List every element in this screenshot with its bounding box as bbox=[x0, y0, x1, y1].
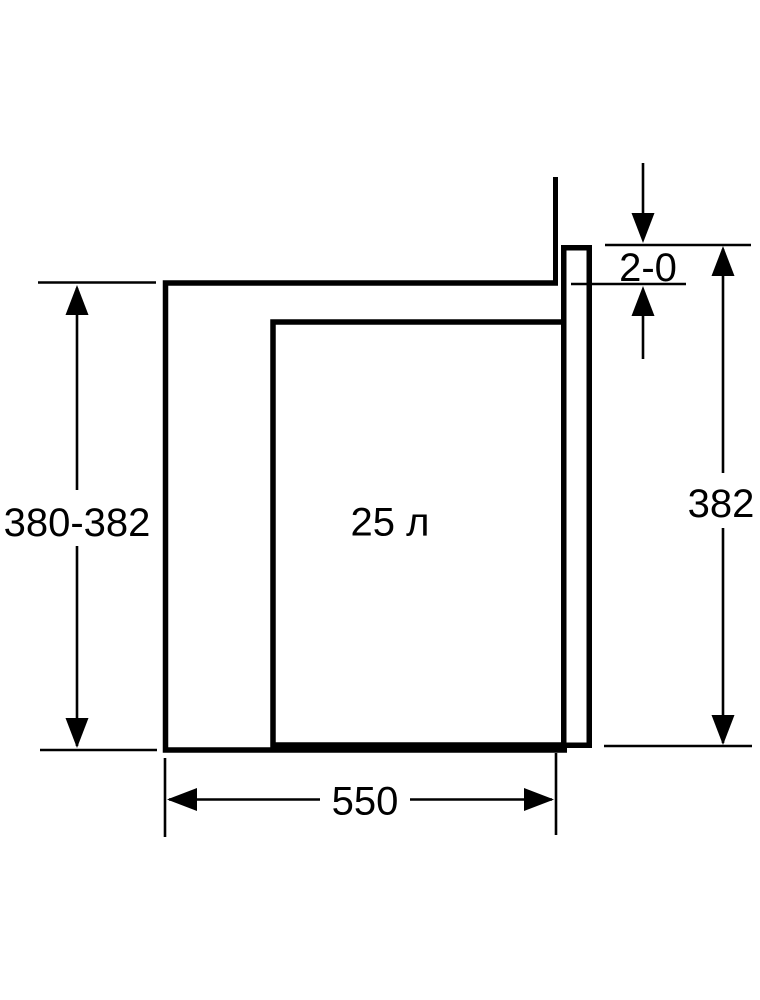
svg-text:2-0: 2-0 bbox=[619, 246, 677, 290]
extension line 550 left bbox=[164, 758, 167, 837]
extension line bottom-right (door bottom level) bbox=[604, 745, 752, 748]
svg-text:25 л: 25 л bbox=[351, 501, 430, 545]
arrowhead down (380-382 bottom) bbox=[66, 718, 89, 748]
dimension 2-0 lower arrow (pointing up) bbox=[642, 314, 645, 359]
wall line above niche bbox=[553, 177, 558, 285]
arrowhead up (382 top) bbox=[712, 246, 735, 276]
oven body 25 l bbox=[273, 322, 563, 745]
dimension 550 horizontal line bbox=[169, 798, 320, 801]
dimension 382 vertical line bbox=[722, 249, 725, 473]
arrowhead right (550) bbox=[524, 788, 554, 811]
extension line 2-0 bottom (niche top level) bbox=[571, 283, 686, 286]
extension line 550 right bbox=[555, 753, 558, 835]
svg-text:380-382: 380-382 bbox=[4, 501, 151, 545]
arrowhead left (550) bbox=[167, 788, 197, 811]
dimension 380-382 vertical line bbox=[76, 288, 79, 490]
niche outline (left, top, bottom walls) bbox=[166, 283, 568, 750]
extension line bottom-left bbox=[40, 749, 157, 752]
dimension 2-0 upper arrow (pointing down) bbox=[642, 163, 645, 216]
extension line top-right (door top level) bbox=[605, 244, 751, 247]
arrowhead up (380-382 top) bbox=[66, 285, 89, 315]
svg-text:382: 382 bbox=[688, 482, 755, 526]
extension line top-left bbox=[38, 281, 156, 284]
door panel bbox=[564, 248, 590, 746]
svg-text:550: 550 bbox=[332, 780, 399, 824]
arrowhead down (382 bottom) bbox=[712, 715, 735, 745]
